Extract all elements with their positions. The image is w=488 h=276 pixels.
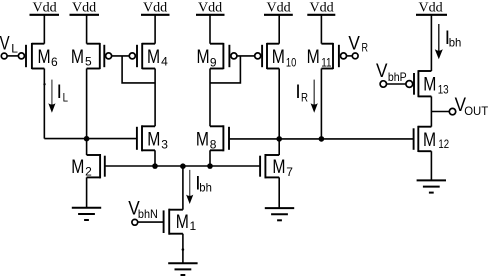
svg-text:Vdd: Vdd xyxy=(72,1,96,16)
wire Vdd to M11 source xyxy=(320,15,322,44)
svg-text:bh: bh xyxy=(449,35,462,49)
label IR xyxy=(295,82,308,105)
svg-text:M: M xyxy=(197,47,210,68)
node wire A (M6/M5/M2 drains to M3 gate) xyxy=(44,138,137,140)
svg-text:I: I xyxy=(57,82,62,103)
transistor M11 (PMOS) xyxy=(307,43,347,70)
svg-text:M: M xyxy=(147,130,160,151)
wire M2 source to ground xyxy=(86,177,88,207)
arrow Ibh current (center) xyxy=(186,170,193,204)
wire Vdd to M5 source xyxy=(86,15,88,44)
arrow IL current xyxy=(48,80,55,113)
label IL xyxy=(57,82,69,105)
svg-text:V: V xyxy=(376,61,388,82)
transistor M2 (NMOS) xyxy=(71,154,105,178)
svg-text:V: V xyxy=(0,34,10,55)
svg-text:M: M xyxy=(196,129,209,150)
wire M13 drain to M12 drain xyxy=(430,96,432,126)
svg-text:M: M xyxy=(38,47,51,68)
transistor M7 (NMOS) xyxy=(260,154,293,179)
junction M5/M2 on wire A xyxy=(84,136,90,142)
node wire B (M2 gate to M7 gate, common node) xyxy=(105,165,260,167)
wire M6 drain down xyxy=(43,69,45,139)
svg-text:Vdd: Vdd xyxy=(143,1,167,16)
power rail Vdd above M5 xyxy=(70,1,100,16)
input terminal VbhN xyxy=(132,219,138,225)
wire M7 drain up xyxy=(278,139,280,155)
junction M1 drain on wire B xyxy=(180,163,186,169)
svg-text:6: 6 xyxy=(51,55,58,69)
wire M2 drain up xyxy=(86,139,88,155)
svg-text:Vdd: Vdd xyxy=(419,1,443,16)
transistor M3 (NMOS) xyxy=(137,125,168,151)
wire M10 drain down xyxy=(278,69,280,139)
junction M3 source on wire B xyxy=(152,163,158,169)
transistor M1 (NMOS) xyxy=(164,209,197,235)
wire M4 gate-drain tie xyxy=(122,56,155,83)
transistor M5 (PMOS) xyxy=(71,43,112,69)
wire VbhP to M13 gate xyxy=(387,83,406,85)
wire M5 drain down xyxy=(86,69,88,139)
arrow Ibh current (top right) xyxy=(435,24,443,59)
power rail Vdd above M9 xyxy=(196,1,225,16)
svg-text:bhN: bhN xyxy=(138,207,158,221)
wire Vdd to M9 source xyxy=(209,15,211,44)
wire M11 gate to VR terminal xyxy=(347,55,353,57)
svg-text:M: M xyxy=(423,74,436,95)
svg-text:R: R xyxy=(362,41,369,55)
power rail Vdd above M4 xyxy=(141,1,170,16)
transistor M13 (PMOS) xyxy=(406,70,449,97)
label VOUT xyxy=(455,95,488,118)
svg-text:bhP: bhP xyxy=(388,70,407,84)
wire M9 gate to M10 gate xyxy=(237,55,255,57)
label VbhP xyxy=(376,61,407,84)
label Ibh (center) xyxy=(195,173,212,194)
svg-text:OUT: OUT xyxy=(464,104,488,118)
node wire (right rail: M8 gate, M10/M11 drains, M12 gate) xyxy=(229,138,414,140)
wire M9 drain to M8 drain xyxy=(209,69,211,127)
svg-text:2: 2 xyxy=(85,164,92,178)
wire M8 source down xyxy=(209,150,211,166)
svg-text:8: 8 xyxy=(210,138,217,152)
power rail Vdd above M10 xyxy=(264,1,293,16)
svg-text:I: I xyxy=(295,82,300,103)
svg-text:Vdd: Vdd xyxy=(310,1,334,16)
wire M5 gate to M4 gate xyxy=(112,55,130,57)
wire M9 gate-drain tie xyxy=(210,56,240,83)
svg-text:bh: bh xyxy=(199,180,212,194)
junction M8 source on wire B xyxy=(207,163,213,169)
svg-text:12: 12 xyxy=(438,137,449,151)
svg-text:L: L xyxy=(11,41,18,55)
wire M1 drain up to wire B xyxy=(182,166,184,210)
input terminal VbhP xyxy=(380,81,386,87)
transistor M6 (PMOS) xyxy=(18,43,58,69)
transistor M4 (PMOS) xyxy=(129,43,168,69)
label Ibh (top right) xyxy=(445,28,462,49)
wire M7 source to ground xyxy=(278,177,280,208)
svg-text:9: 9 xyxy=(210,55,217,69)
label VR xyxy=(348,34,368,55)
svg-text:M: M xyxy=(71,157,84,178)
transistor M8 (NMOS) xyxy=(196,125,229,151)
wire Vdd to M13 source xyxy=(430,15,432,71)
wire VbhN to M1 gate xyxy=(138,221,164,223)
svg-text:7: 7 xyxy=(286,165,293,179)
transistor M10 (PMOS) xyxy=(255,43,297,70)
svg-text:R: R xyxy=(301,91,308,105)
wire M12 source to ground xyxy=(430,151,432,180)
svg-text:11: 11 xyxy=(321,56,332,70)
junction M11 on right rail xyxy=(319,136,325,142)
svg-text:L: L xyxy=(63,91,69,105)
junction M10/M7 on right rail xyxy=(276,136,282,142)
output terminal VOUT xyxy=(449,108,455,114)
svg-text:1: 1 xyxy=(190,219,197,233)
wire M1 source to ground xyxy=(182,234,184,264)
svg-text:M: M xyxy=(147,47,160,68)
input terminal VL xyxy=(1,53,7,59)
label VL xyxy=(0,34,18,56)
svg-text:M: M xyxy=(307,47,320,68)
wire Vdd to M10 source xyxy=(278,15,280,44)
svg-text:4: 4 xyxy=(161,55,168,69)
svg-text:10: 10 xyxy=(286,55,297,69)
wire M11 drain down xyxy=(320,69,322,139)
svg-text:5: 5 xyxy=(85,55,92,69)
svg-text:M: M xyxy=(176,212,189,233)
svg-text:M: M xyxy=(272,47,285,68)
power rail Vdd above M6 xyxy=(30,1,60,16)
svg-text:V: V xyxy=(348,34,360,55)
power rail Vdd above M11 xyxy=(307,1,335,16)
svg-text:13: 13 xyxy=(438,83,449,97)
wire VOUT tap xyxy=(431,111,449,113)
node on M6 drain wire xyxy=(43,83,45,85)
label VbhN xyxy=(128,198,158,221)
power rail Vdd above M13 xyxy=(416,1,447,16)
wire Vdd to M4 source xyxy=(154,15,156,44)
wire M4 drain to M3 drain xyxy=(154,69,156,127)
ground below M1 xyxy=(168,263,197,275)
svg-text:Vdd: Vdd xyxy=(198,1,222,16)
wire M3 source down xyxy=(154,150,156,166)
transistor M9 (PMOS) xyxy=(197,43,237,70)
wire VL to M6 gate xyxy=(7,55,18,57)
node on M1 source wire xyxy=(182,248,185,251)
svg-text:Vdd: Vdd xyxy=(33,1,57,16)
ground below M2 xyxy=(72,208,101,220)
wire Vdd to M6 source xyxy=(43,15,45,44)
input terminal VR xyxy=(352,53,358,59)
svg-text:3: 3 xyxy=(161,137,168,151)
svg-text:M: M xyxy=(423,130,436,151)
svg-text:M: M xyxy=(272,157,285,178)
arrow IR current xyxy=(311,80,318,113)
ground below M7 xyxy=(265,208,294,220)
svg-text:M: M xyxy=(71,47,84,68)
svg-text:Vdd: Vdd xyxy=(267,1,291,16)
ground below M12 xyxy=(417,180,446,192)
transistor M12 (NMOS) xyxy=(414,126,450,152)
